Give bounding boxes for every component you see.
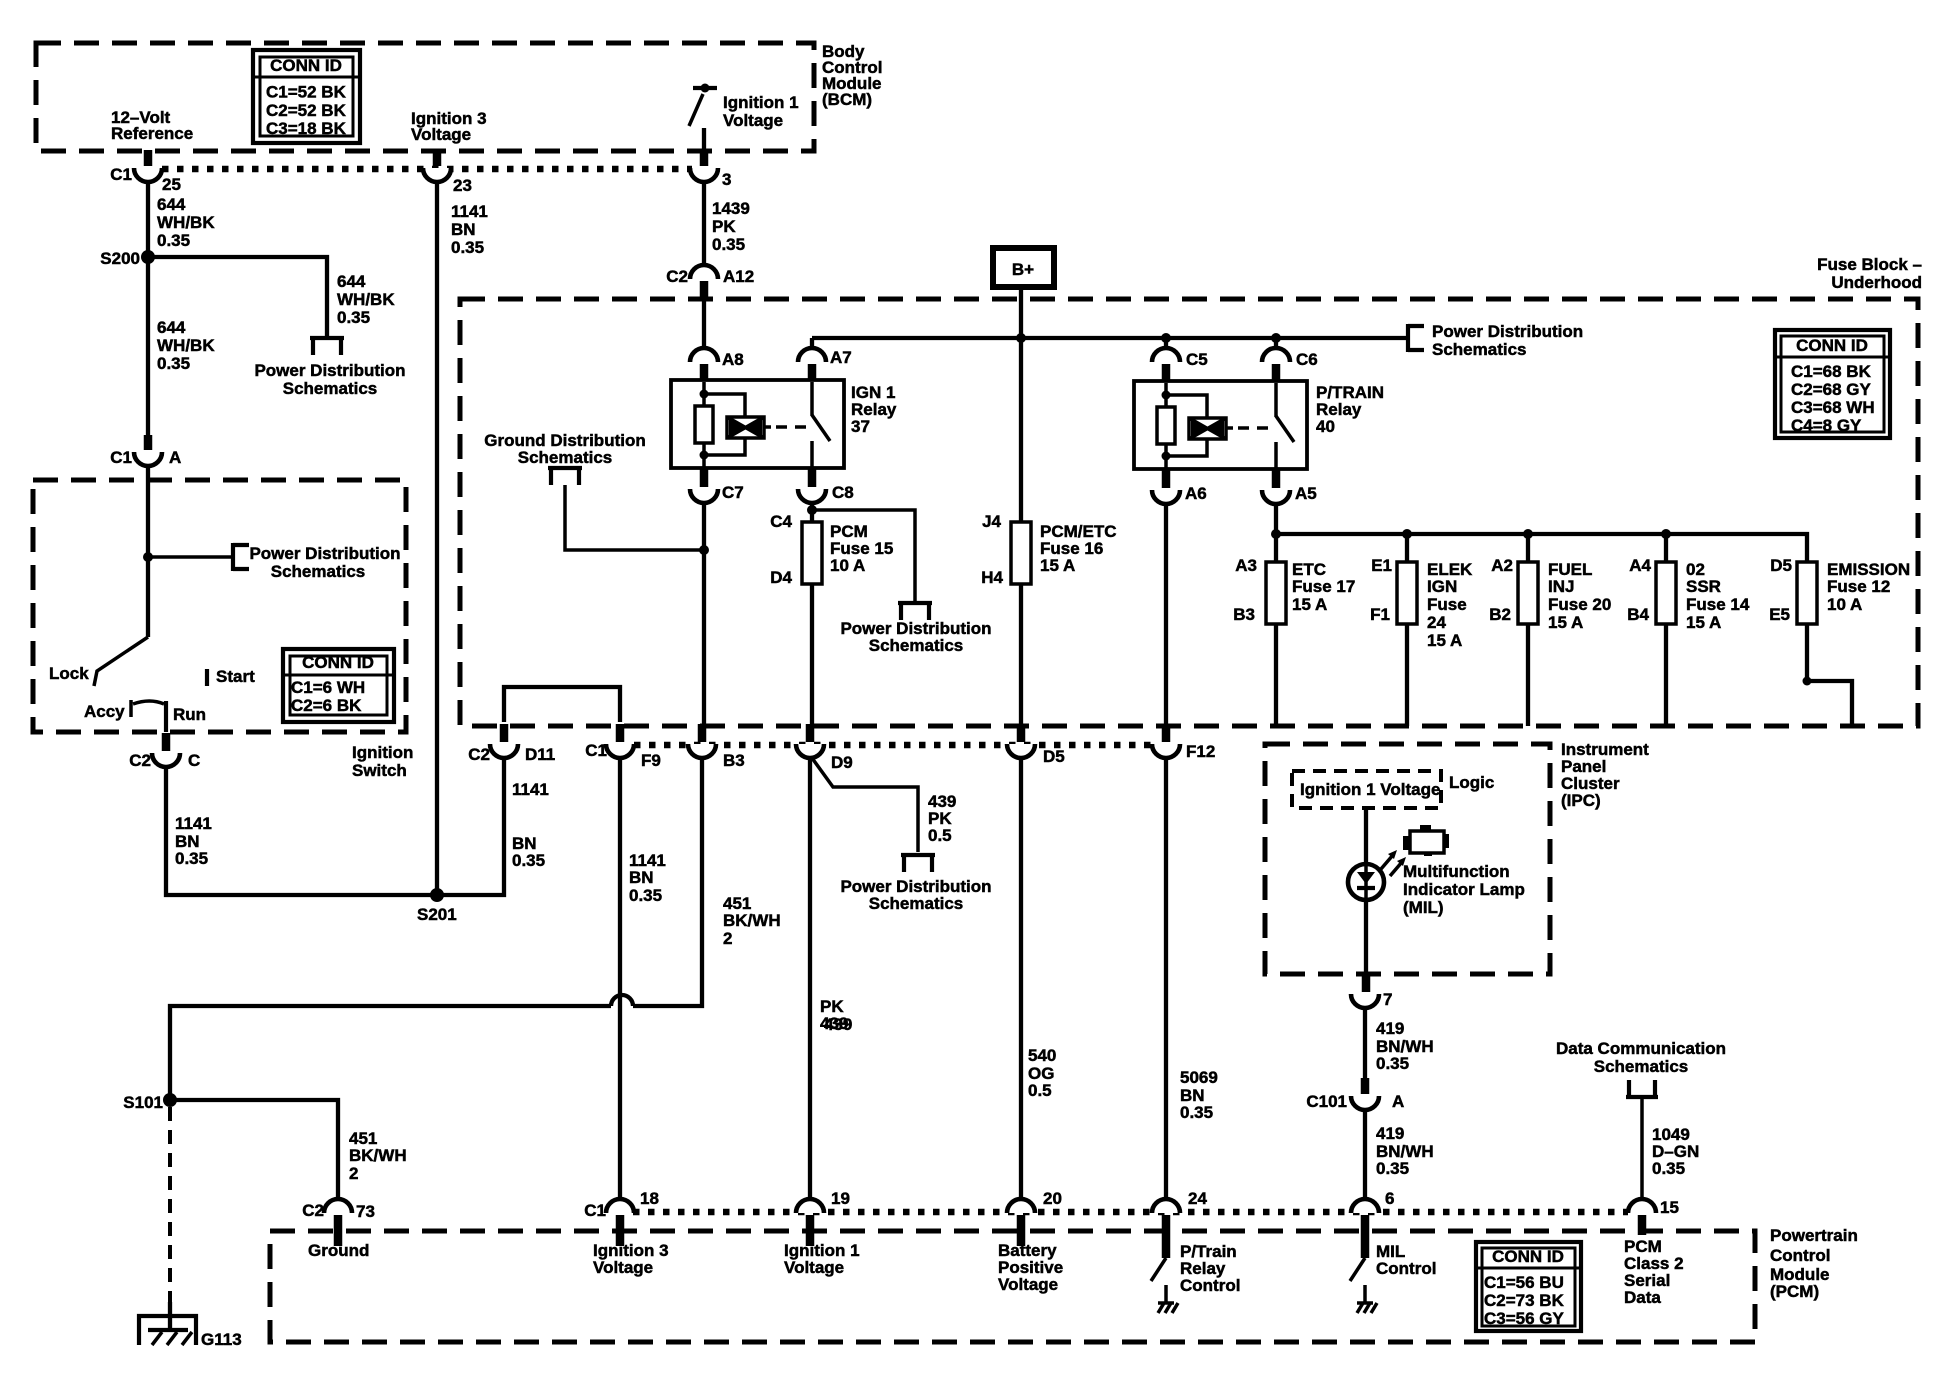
svg-text:25: 25 (162, 175, 181, 194)
svg-text:WH/BK: WH/BK (157, 213, 215, 232)
svg-text:0.35: 0.35 (1180, 1103, 1213, 1122)
svg-text:5069: 5069 (1180, 1068, 1218, 1087)
CONN ID table (BCM): C1=52 BK C2=52 BK C3=18 BK (253, 50, 360, 143)
node 12-Volt Reference (111, 108, 193, 143)
svg-text:19: 19 (831, 1189, 850, 1208)
svg-text:Fuse: Fuse (1427, 595, 1467, 614)
svg-text:Powertrain: Powertrain (1770, 1226, 1858, 1245)
LED emission arrows (1381, 850, 1406, 876)
svg-text:Voltage: Voltage (411, 125, 471, 144)
svg-text:Schematics: Schematics (1432, 340, 1527, 359)
wire S201 to fuse block C2-D11 (437, 757, 504, 895)
connector pin A8 (IGN 1 relay) (690, 348, 744, 382)
svg-text:F9: F9 (641, 751, 661, 770)
svg-text:D11: D11 (525, 745, 555, 764)
relay K1 IGN 1 Relay 37 (671, 380, 897, 468)
svg-text:E5: E5 (1769, 605, 1790, 624)
svg-text:Lock: Lock (49, 664, 89, 683)
svg-text:3: 3 (722, 170, 731, 189)
svg-text:Fuse 12: Fuse 12 (1827, 577, 1890, 596)
connector pin D5 (1007, 724, 1065, 766)
off-page reference Power Distribution Schematics (D9 branch) (840, 855, 991, 913)
svg-text:Schematics: Schematics (518, 448, 613, 467)
connector pin C5 (P/TRAIN relay) (1152, 338, 1208, 382)
svg-text:0.35: 0.35 (512, 851, 545, 870)
node Accy (84, 700, 131, 721)
connector pin D9 (796, 724, 853, 772)
svg-text:15 A: 15 A (1548, 613, 1583, 632)
wire D9 to PCM pin 19 (808, 757, 812, 1200)
svg-text:Fuse 17: Fuse 17 (1292, 577, 1355, 596)
svg-text:C1: C1 (110, 448, 132, 467)
svg-text:Schematics: Schematics (869, 636, 964, 655)
svg-text:Accy: Accy (84, 702, 125, 721)
connector pin C6 (P/TRAIN relay) (1262, 338, 1318, 382)
svg-text:1141: 1141 (512, 780, 549, 799)
off-page reference Power Distribution Schematics (fuse 15 feed) (840, 603, 991, 655)
svg-text:2: 2 (723, 929, 732, 948)
label 644 WH/BK 0.35 (branch) (337, 272, 395, 327)
wire 439 PK branch from D9 (812, 758, 918, 852)
svg-text:(MIL): (MIL) (1403, 898, 1444, 917)
svg-text:BN: BN (629, 868, 654, 887)
svg-text:0.35: 0.35 (175, 849, 208, 868)
wire A6 to F12 (1164, 503, 1168, 727)
wire 1141 BN from ignition switch to S201 (166, 766, 437, 895)
wire S200 branch to power distribution (148, 257, 327, 336)
svg-text:S200: S200 (100, 249, 140, 268)
svg-text:C3=56 GY: C3=56 GY (1484, 1309, 1565, 1328)
svg-text:Ground: Ground (308, 1241, 369, 1260)
svg-text:C2=52 BK: C2=52 BK (266, 101, 347, 120)
wire 1141 BN from BCM C1-23 to S201 (435, 181, 439, 895)
label 1141 BN 0.35 (175, 814, 212, 868)
wire fuse 16 to D5 (1019, 584, 1023, 727)
wire A5 to fuse bus (1274, 503, 1278, 534)
svg-text:C6: C6 (1296, 350, 1318, 369)
CONN ID table (PCM): C1=56 BU C2=73 BK C3=56 GY (1476, 1242, 1581, 1331)
svg-text:C8: C8 (832, 483, 854, 502)
svg-text:C1: C1 (584, 1201, 606, 1220)
junction bus/C5 (1161, 333, 1171, 343)
jumper wire D11 to F9 (inside fuse block) (504, 687, 620, 722)
svg-text:15 A: 15 A (1040, 556, 1075, 575)
svg-text:644: 644 (337, 272, 366, 291)
CONN ID table (fuse block underhood) (1775, 330, 1890, 438)
svg-text:WH/BK: WH/BK (157, 336, 215, 355)
wire B+ to bus (1019, 287, 1023, 338)
wire 5069 BN from F12 to PCM pin 24 (1164, 757, 1168, 1200)
svg-text:10 A: 10 A (830, 556, 865, 575)
svg-text:B3: B3 (1233, 605, 1255, 624)
label 419 BN/WH 0.35 (upper) (1376, 1019, 1434, 1073)
fuse block underhood box (460, 299, 1918, 726)
svg-text:Ignition 1: Ignition 1 (723, 93, 799, 112)
junction bus/ETC fuse (1271, 529, 1281, 539)
label 1141 BN 0.35 (F9) (629, 851, 666, 905)
svg-text:D9: D9 (831, 753, 853, 772)
power bus wire from A7 to power distribution reference (812, 336, 1408, 340)
svg-text:Run: Run (173, 705, 206, 724)
svg-text:S201: S201 (417, 905, 457, 924)
svg-text:Power Distribution: Power Distribution (249, 544, 400, 563)
svg-text:H4: H4 (981, 568, 1003, 587)
label 451 BK/WH 2 (B3) (723, 894, 781, 948)
svg-text:6: 6 (1385, 1189, 1394, 1208)
svg-text:Underhood: Underhood (1831, 273, 1922, 292)
svg-text:0.35: 0.35 (1652, 1159, 1685, 1178)
svg-text:D4: D4 (770, 568, 792, 587)
connector pin A5 (1262, 469, 1317, 504)
svg-text:Schematics: Schematics (283, 379, 378, 398)
off-page reference Power Distribution Schematics (ignition switch) (233, 543, 401, 581)
svg-text:D5: D5 (1770, 556, 1792, 575)
junction bus/C6 (1271, 333, 1281, 343)
svg-text:B+: B+ (1012, 260, 1034, 279)
fuse F15 PCM Fuse 15 10 A (770, 512, 893, 587)
svg-text:0.35: 0.35 (337, 308, 370, 327)
svg-text:Voltage: Voltage (723, 111, 783, 130)
svg-text:A4: A4 (1629, 556, 1651, 575)
fuse bus wire (1276, 534, 1807, 562)
svg-text:C2=68 GY: C2=68 GY (1791, 380, 1872, 399)
svg-text:Fuse Block –: Fuse Block – (1817, 255, 1922, 274)
svg-text:Fuse 20: Fuse 20 (1548, 595, 1611, 614)
connector pin 19 (PCM) (796, 1189, 850, 1246)
junction 439 branch (807, 505, 817, 515)
svg-text:0.35: 0.35 (157, 231, 190, 250)
connector pin A6 (1152, 469, 1207, 504)
svg-text:C1=68 BK: C1=68 BK (1791, 362, 1872, 381)
wire into ignition switch (146, 465, 150, 557)
wire 644 WH/BK from S200 to ignition switch (146, 257, 150, 437)
svg-text:(PCM): (PCM) (1770, 1282, 1819, 1301)
junction bus/ELEK fuse (1402, 529, 1412, 539)
connector pin B3 (688, 724, 745, 770)
wire 419 BN/WH pin7 to C101 (1363, 1007, 1367, 1080)
wire 451 BK/WH from B3 to S101 (170, 757, 702, 1100)
label 644 WH/BK 0.35 (lower) (157, 318, 215, 373)
junction ignition switch feed (143, 552, 153, 562)
Body Control Module (BCM) box (36, 43, 814, 151)
junction B+/bus (1016, 333, 1026, 343)
transistor driver MIL control (1350, 1258, 1377, 1313)
label 540 OG 0.5 (1028, 1046, 1056, 1100)
connector pin 7 (IPC) (1351, 974, 1392, 1009)
svg-text:439: 439 (824, 1015, 852, 1034)
off-page reference Power Distribution Schematics (B+ bus) (1408, 322, 1583, 359)
svg-text:C1=52 BK: C1=52 BK (266, 83, 347, 102)
svg-text:Indicator Lamp: Indicator Lamp (1403, 880, 1525, 899)
svg-text:Ignition: Ignition (352, 743, 413, 762)
fuse F24 ELEK IGN Fuse 24 15 A (1370, 534, 1473, 726)
svg-text:1439: 1439 (712, 199, 750, 218)
svg-text:Data: Data (1624, 1288, 1661, 1307)
lamp MIL indicator (1348, 864, 1384, 900)
svg-text:0.5: 0.5 (928, 826, 952, 845)
svg-text:PK: PK (712, 217, 736, 236)
svg-text:2: 2 (349, 1164, 358, 1183)
fuse F12 EMISSION Fuse 12 10 A (1769, 556, 1910, 726)
svg-text:0.5: 0.5 (1028, 1081, 1052, 1100)
svg-text:A8: A8 (722, 350, 744, 369)
svg-text:Logic: Logic (1449, 773, 1494, 792)
svg-text:Fuse 14: Fuse 14 (1686, 595, 1750, 614)
node Ignition 3 Voltage (BCM) (411, 109, 487, 144)
junction ground distribution tap (699, 545, 709, 555)
wire 419 BN/WH C101 to PCM pin 6 (1363, 1109, 1367, 1200)
svg-text:A5: A5 (1295, 484, 1317, 503)
node S200 (100, 249, 155, 268)
label Multifunction Indicator Lamp (MIL) (1403, 862, 1525, 917)
connector C1 pin A (ignition switch) (110, 435, 181, 467)
node S201 (417, 888, 457, 924)
svg-text:(BCM): (BCM) (822, 90, 872, 109)
svg-text:WH/BK: WH/BK (337, 290, 395, 309)
wire hop over F9 wire (611, 995, 633, 1006)
node MIL Control (1376, 1242, 1436, 1278)
svg-text:BK/WH: BK/WH (349, 1146, 407, 1165)
wire 540 OG from D5 to PCM pin 20 (1019, 757, 1023, 1200)
svg-text:CONN ID: CONN ID (1492, 1247, 1564, 1266)
connector C2 pin D11 (468, 724, 555, 764)
fuse F16 PCM/ETC Fuse 16 15 A (981, 512, 1116, 587)
svg-text:Voltage: Voltage (593, 1258, 653, 1277)
svg-text:Reference: Reference (111, 124, 193, 143)
svg-text:C2: C2 (468, 745, 490, 764)
svg-text:C1=56 BU: C1=56 BU (1484, 1273, 1564, 1292)
wire A12 to relay pin A8 (702, 299, 706, 350)
ground G113 (139, 1316, 242, 1349)
svg-text:15: 15 (1660, 1198, 1679, 1217)
node Run contact arc (133, 701, 206, 724)
svg-text:C1: C1 (110, 165, 132, 184)
svg-text:C2: C2 (129, 751, 151, 770)
svg-text:7: 7 (1383, 990, 1392, 1009)
svg-text:40: 40 (1316, 417, 1335, 436)
svg-text:E1: E1 (1371, 556, 1392, 575)
off-page reference Data Communication Schematics (1556, 1039, 1726, 1097)
svg-text:F12: F12 (1186, 742, 1215, 761)
svg-text:Start: Start (216, 667, 255, 686)
off-page reference Ground Distribution Schematics (484, 431, 704, 550)
svg-text:B3: B3 (723, 751, 745, 770)
label 1439 PK 0.35 (712, 199, 750, 254)
label 1049 D-GN 0.35 (1652, 1125, 1699, 1178)
svg-text:SSR: SSR (1686, 577, 1721, 596)
svg-text:Schematics: Schematics (271, 562, 366, 581)
svg-text:C1=6 WH: C1=6 WH (291, 678, 365, 697)
label 419 BN/WH 0.35 (lower) (1376, 1124, 1434, 1178)
label 5069 BN 0.35 (1180, 1068, 1218, 1122)
svg-text:(IPC): (IPC) (1561, 791, 1601, 810)
battery feed B+ (993, 248, 1054, 287)
transistor driver P/Train relay control (1151, 1258, 1178, 1313)
svg-text:Multifunction: Multifunction (1403, 862, 1510, 881)
svg-text:C: C (188, 751, 200, 770)
svg-text:B2: B2 (1489, 605, 1511, 624)
connector pin C8 (798, 468, 854, 503)
svg-text:C5: C5 (1186, 350, 1208, 369)
svg-text:18: 18 (640, 1189, 659, 1208)
CONN ID table (ignition switch): C1=6 WH C2=6 BK (283, 649, 394, 722)
svg-text:Power Distribution: Power Distribution (1432, 322, 1583, 341)
svg-text:Power Distribution: Power Distribution (254, 361, 405, 380)
svg-text:0.35: 0.35 (451, 238, 484, 257)
svg-text:C7: C7 (722, 483, 744, 502)
connector C1 pin 25 (110, 150, 181, 194)
svg-text:C3=68 WH: C3=68 WH (1791, 398, 1875, 417)
node Ignition 3 Voltage (PCM) (593, 1241, 669, 1277)
connector pin 24 (PCM) (1152, 1189, 1207, 1258)
Powertrain Control Module (PCM) box (270, 1231, 1755, 1342)
svg-text:15 A: 15 A (1686, 613, 1721, 632)
svg-text:A: A (169, 448, 181, 467)
PCM connector face dotted line (633, 1209, 1628, 1216)
wire branch to power distribution (439 PK 0.5) (812, 510, 915, 601)
wire B+ bus to fuse 16 (1019, 338, 1023, 522)
svg-text:F1: F1 (1370, 605, 1390, 624)
wire Run contact (164, 701, 168, 732)
junction bus/FUEL fuse (1523, 529, 1533, 539)
connector C2 pin A12 (fuse block) (666, 265, 754, 299)
svg-text:C2: C2 (666, 267, 688, 286)
BCM connector face dotted line (162, 166, 692, 173)
connector C1 pin 23 (423, 150, 472, 195)
svg-text:24: 24 (1427, 613, 1446, 632)
svg-text:Voltage: Voltage (998, 1275, 1058, 1294)
svg-text:C101: C101 (1306, 1092, 1347, 1111)
svg-text:C1: C1 (585, 741, 607, 760)
svg-text:C2: C2 (302, 1201, 324, 1220)
svg-text:419: 419 (1376, 1019, 1404, 1038)
wire 1049 D-GN to PCM pin 15 (1640, 1097, 1644, 1200)
wire 1141 BN F9 to PCM pin 18 (618, 757, 622, 1200)
svg-text:C3=18 BK: C3=18 BK (266, 119, 347, 138)
fuse F17 ETC Fuse 17 15 A (1233, 534, 1355, 726)
node Battery Positive Voltage (PCM) (998, 1241, 1063, 1294)
ignition switch module box (33, 480, 406, 732)
node Start (207, 667, 255, 686)
svg-text:23: 23 (453, 176, 472, 195)
svg-text:15 A: 15 A (1292, 595, 1327, 614)
svg-text:Data Communication: Data Communication (1556, 1039, 1726, 1058)
connector pin A7 (IGN 1 relay) (798, 338, 852, 382)
svg-text:0.35: 0.35 (1376, 1054, 1409, 1073)
connector pin F12 (1152, 724, 1215, 761)
svg-text:1141: 1141 (175, 814, 212, 833)
node PCM Class 2 Serial Data (1624, 1237, 1684, 1307)
svg-text:Control: Control (1376, 1259, 1436, 1278)
svg-text:G113: G113 (201, 1330, 242, 1349)
svg-text:A2: A2 (1491, 556, 1513, 575)
svg-text:INJ: INJ (1548, 577, 1574, 596)
node P/Train Relay Control (1180, 1242, 1240, 1295)
svg-text:CONN ID: CONN ID (302, 653, 374, 672)
svg-text:419: 419 (1376, 1124, 1404, 1143)
wire C8 to PCM fuse 15 (810, 502, 814, 522)
svg-text:73: 73 (356, 1202, 375, 1221)
wire 644 WH/BK from C1-25 to S200 (146, 181, 150, 257)
wire MIL logic feed (1364, 808, 1368, 974)
svg-text:C2=73 BK: C2=73 BK (1484, 1291, 1565, 1310)
svg-text:0.35: 0.35 (712, 235, 745, 254)
svg-text:BK/WH: BK/WH (723, 911, 781, 930)
svg-text:IGN: IGN (1427, 577, 1457, 596)
svg-text:Ignition 1 Voltage: Ignition 1 Voltage (1300, 780, 1440, 799)
fuse F20 FUEL INJ Fuse 20 15 A (1489, 534, 1611, 726)
switch ignition switch blade (94, 557, 148, 686)
svg-text:Switch: Switch (352, 761, 407, 780)
svg-text:C4: C4 (770, 512, 792, 531)
svg-text:Voltage: Voltage (784, 1258, 844, 1277)
svg-text:C4=8 GY: C4=8 GY (1791, 416, 1862, 435)
off-page reference Power Distribution Schematics (S200 branch) (254, 338, 405, 398)
node Ignition 1 Voltage (BCM) (723, 93, 799, 130)
svg-text:J4: J4 (982, 512, 1001, 531)
wire branch to power distribution (ignition switch) (148, 555, 233, 559)
svg-text:1141: 1141 (451, 202, 488, 221)
svg-text:S101: S101 (123, 1093, 163, 1112)
svg-text:10 A: 10 A (1827, 595, 1862, 614)
svg-text:0.35: 0.35 (157, 354, 190, 373)
svg-text:A12: A12 (723, 267, 754, 286)
connector pin 6 (PCM) (1351, 1189, 1394, 1258)
svg-text:A7: A7 (830, 348, 852, 367)
svg-text:C2=6 BK: C2=6 BK (291, 696, 362, 715)
relay K2 P/TRAIN Relay 40 (1134, 381, 1384, 469)
label 439 PK 0.5 (928, 792, 956, 845)
svg-text:Schematics: Schematics (869, 894, 964, 913)
node Ignition 1 Voltage (PCM) (784, 1241, 860, 1277)
svg-text:CONN ID: CONN ID (270, 56, 342, 75)
svg-text:BN: BN (451, 220, 476, 239)
svg-text:CONN ID: CONN ID (1796, 336, 1868, 355)
connector C1 pin 3 (690, 150, 731, 189)
label 644 WH/BK 0.35 (157, 195, 215, 250)
wire S101 to PCM ground pin 73 (170, 1100, 338, 1199)
wire C7 to B3 (ground path) (702, 502, 706, 727)
connector C2 pin C (129, 733, 200, 770)
switch SW1 ignition 1 voltage internal switch (689, 84, 717, 152)
wire fuse 15 to D9 (810, 584, 814, 727)
connector pin 20 (PCM) (1007, 1189, 1062, 1246)
svg-text:Control: Control (1180, 1276, 1240, 1295)
node S101 (123, 1093, 177, 1112)
label 451 BK/WH 2 (S101) (349, 1129, 407, 1183)
svg-text:0.35: 0.35 (1376, 1159, 1409, 1178)
connector pin C7 (690, 468, 744, 503)
IPC logic block: Ignition 1 Voltage (1292, 771, 1441, 808)
svg-text:644: 644 (157, 318, 186, 337)
wire 1439 PK from BCM pin 3 to C2-A12 (702, 181, 706, 265)
svg-text:Control: Control (1770, 1246, 1830, 1265)
label PK 439 (overprinted) (820, 997, 852, 1034)
svg-text:A6: A6 (1185, 484, 1207, 503)
svg-text:D5: D5 (1043, 747, 1065, 766)
svg-text:644: 644 (157, 195, 186, 214)
svg-text:Schematics: Schematics (1594, 1057, 1689, 1076)
label 1141 BN 0.35 (D11) (512, 780, 549, 870)
svg-text:20: 20 (1043, 1189, 1062, 1208)
svg-text:24: 24 (1188, 1189, 1207, 1208)
svg-text:B4: B4 (1627, 605, 1649, 624)
svg-text:A3: A3 (1235, 556, 1257, 575)
wire dashed S101 to G113 (168, 1107, 172, 1302)
connector pin 15 (PCM) (1628, 1198, 1679, 1235)
svg-text:540: 540 (1028, 1046, 1056, 1065)
connector C101 pin A (1306, 1078, 1404, 1111)
